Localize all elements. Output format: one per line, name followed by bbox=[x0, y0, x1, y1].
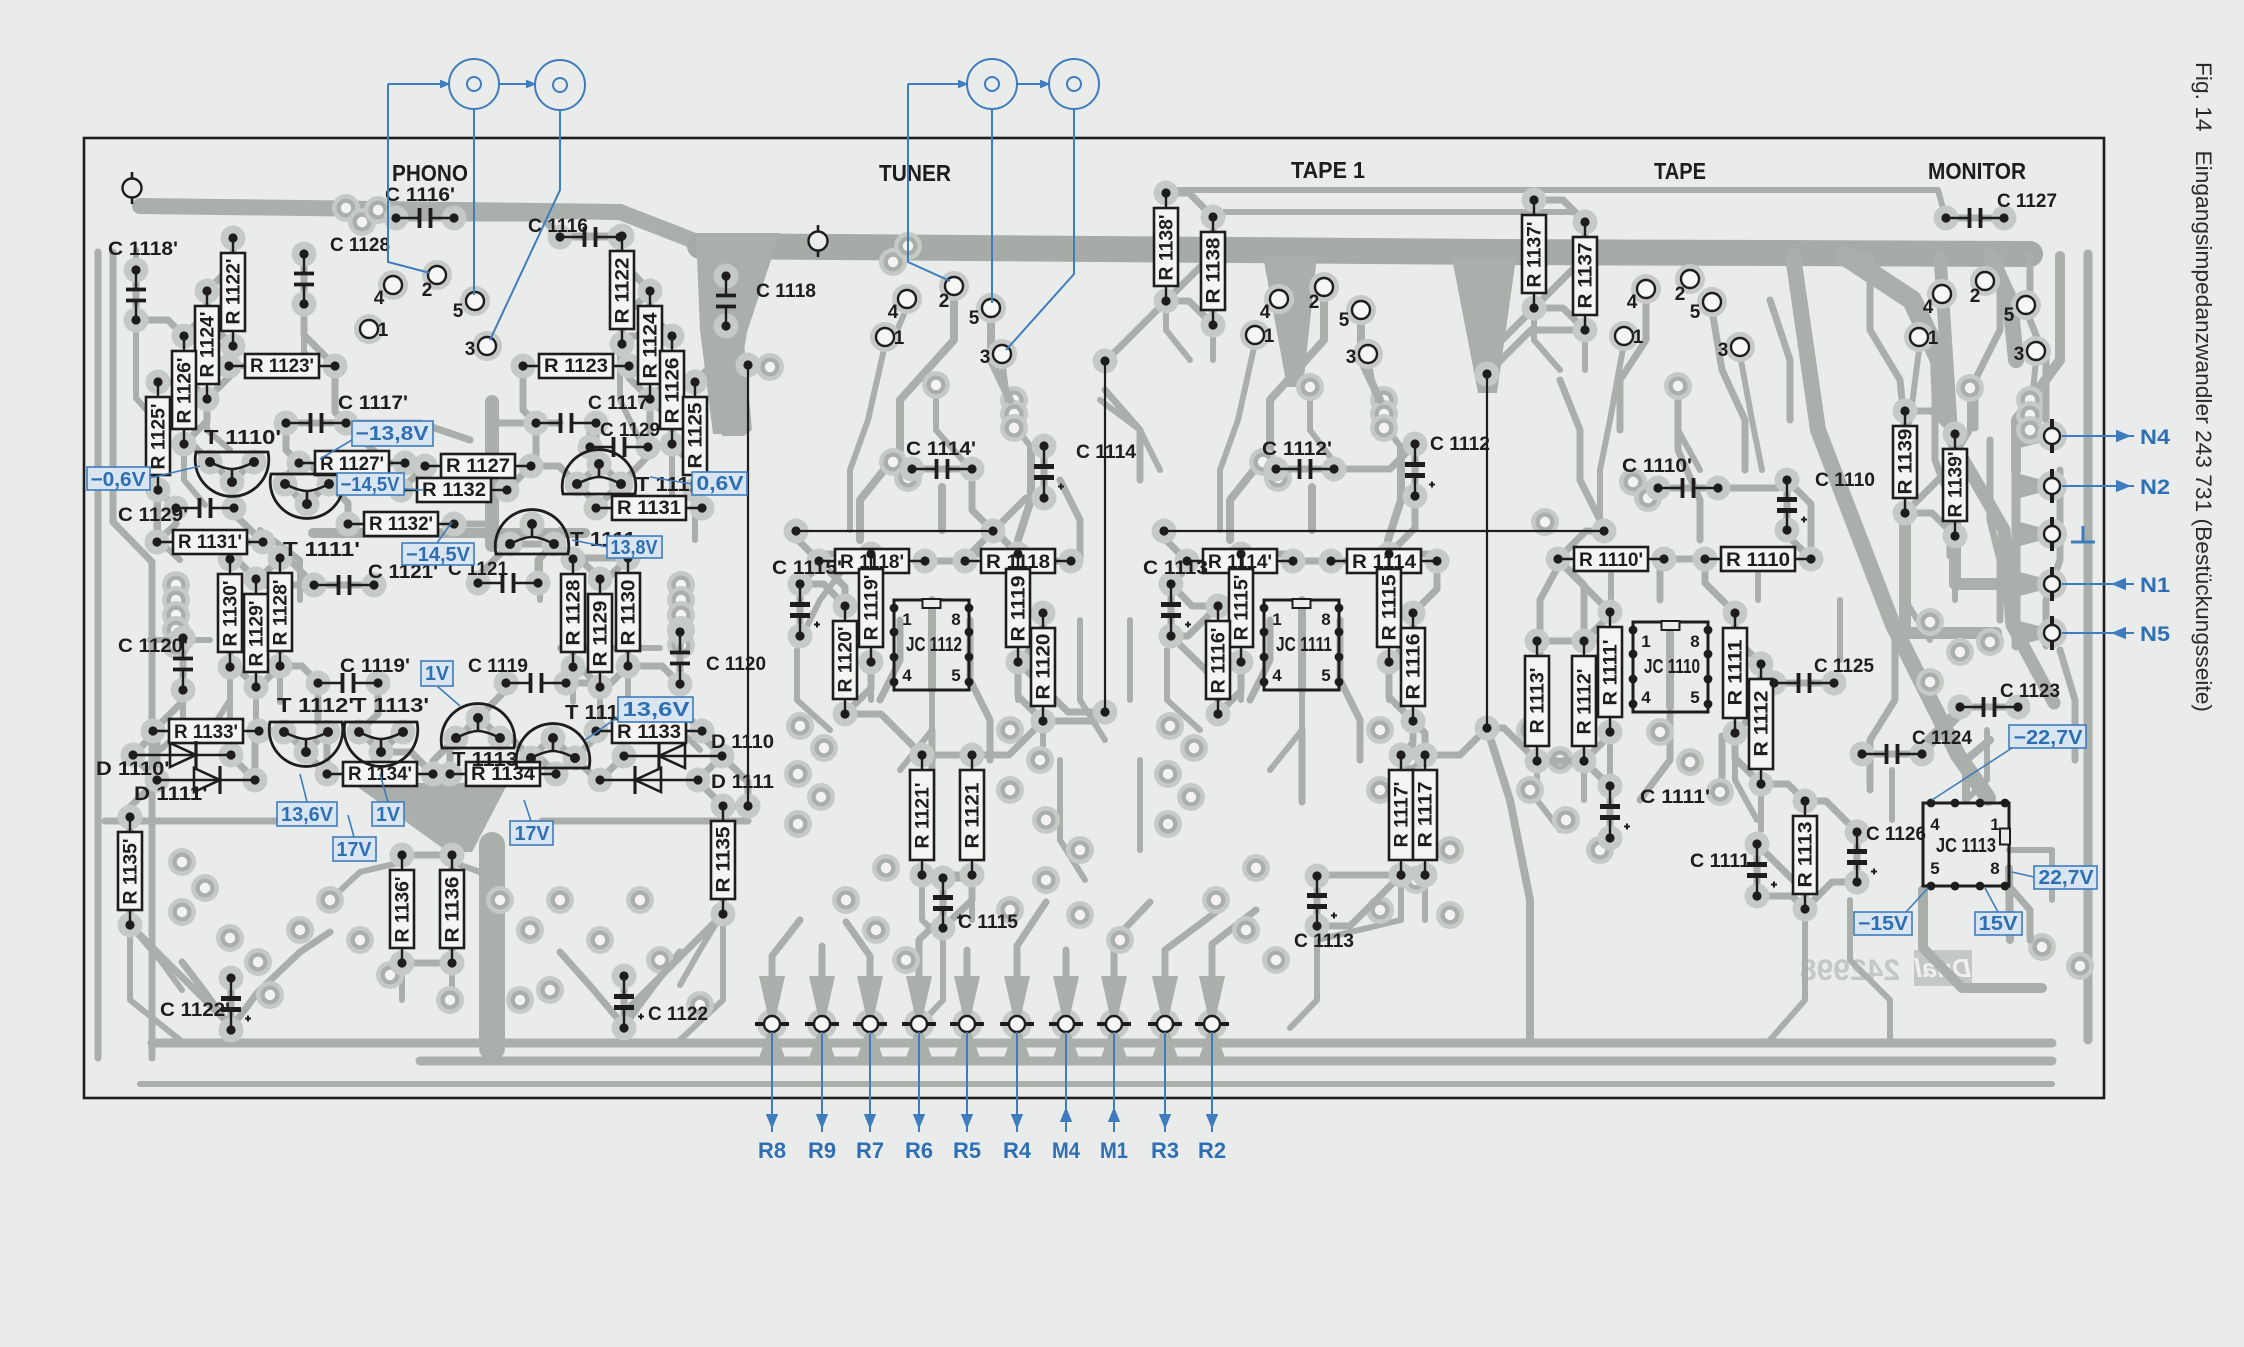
voltage label 1V bbox=[421, 661, 453, 686]
board outline frame bbox=[84, 138, 2104, 1098]
svg-text:17V: 17V bbox=[515, 823, 551, 845]
svg-text:R 1113': R 1113' bbox=[1528, 668, 1549, 734]
resistor R 1114 bbox=[1326, 549, 1441, 573]
op-amp JC 1110 bbox=[1629, 621, 1713, 712]
svg-text:5: 5 bbox=[2004, 305, 2015, 326]
svg-text:R 1139: R 1139 bbox=[1896, 429, 1917, 495]
capacitor C 1117' bbox=[281, 393, 408, 433]
resistor R 1112 bbox=[1749, 659, 1773, 788]
transistor T 1113' bbox=[344, 695, 429, 766]
svg-text:R2: R2 bbox=[1198, 1138, 1226, 1163]
svg-text:C 1118': C 1118' bbox=[108, 239, 178, 260]
svg-text:5: 5 bbox=[1321, 666, 1330, 685]
diode D 1111 bbox=[595, 766, 774, 794]
ground symbol bbox=[2071, 541, 2095, 544]
svg-text:1: 1 bbox=[1641, 632, 1650, 651]
svg-text:JC 1113: JC 1113 bbox=[1936, 835, 1996, 857]
voltage label 1V bbox=[372, 802, 404, 826]
svg-text:R 1117: R 1117 bbox=[1416, 782, 1437, 848]
capacitor C 1129' bbox=[118, 498, 239, 526]
resistor R 1110 bbox=[1700, 547, 1815, 571]
svg-text:T 1112': T 1112' bbox=[277, 695, 354, 717]
svg-text:T 1111': T 1111' bbox=[283, 539, 360, 561]
voltage label −13,8V bbox=[352, 421, 433, 446]
svg-text:TAPE 1: TAPE 1 bbox=[1291, 157, 1365, 183]
svg-text:R 1123: R 1123 bbox=[544, 356, 608, 377]
svg-text:T 1110': T 1110' bbox=[204, 427, 281, 449]
svg-text:3: 3 bbox=[465, 339, 476, 360]
terminal label M4 bbox=[1065, 1032, 1067, 1132]
resistor R 1120 bbox=[1031, 608, 1055, 725]
svg-text:C 1111': C 1111' bbox=[1640, 787, 1710, 808]
svg-text:R 1121: R 1121 bbox=[963, 782, 984, 848]
svg-text:C 1115': C 1115' bbox=[772, 558, 842, 579]
voltage label 15V bbox=[1975, 912, 2022, 935]
svg-text:5: 5 bbox=[969, 308, 980, 329]
svg-text:R 1111': R 1111' bbox=[1601, 640, 1622, 706]
capacitor C 1112' bbox=[1262, 439, 1339, 479]
svg-text:R 1131: R 1131 bbox=[617, 498, 681, 519]
svg-text:8: 8 bbox=[1990, 859, 1999, 878]
svg-text:4: 4 bbox=[1923, 297, 1934, 318]
svg-text:R 1123': R 1123' bbox=[250, 356, 314, 377]
resistor R 1124' bbox=[195, 286, 219, 403]
svg-text:D 1111: D 1111 bbox=[711, 772, 774, 793]
svg-text:C 1118: C 1118 bbox=[756, 281, 816, 302]
svg-text:R 1138': R 1138' bbox=[1157, 215, 1178, 281]
svg-text:2: 2 bbox=[1675, 284, 1686, 305]
svg-text:C 1119: C 1119 bbox=[468, 656, 528, 677]
capacitor C 1123 bbox=[1955, 681, 2060, 717]
svg-text:C 1124: C 1124 bbox=[1912, 728, 1972, 749]
transistor T 1110' bbox=[195, 427, 281, 496]
svg-text:R 1115': R 1115' bbox=[1232, 575, 1253, 641]
svg-text:R 1116': R 1116' bbox=[1209, 628, 1230, 694]
capacitor C 1111' bbox=[1600, 781, 1710, 842]
voltage label −0,6V bbox=[87, 467, 150, 491]
svg-text:2: 2 bbox=[939, 291, 950, 312]
capacitor C 1124 bbox=[1857, 728, 1972, 764]
resistor R 1113' bbox=[1525, 636, 1549, 765]
svg-text:C 1120': C 1120' bbox=[118, 636, 188, 657]
resistor R 1130 bbox=[616, 553, 640, 670]
svg-text:C 1122: C 1122 bbox=[648, 1004, 708, 1025]
resistor R 1125 bbox=[683, 377, 707, 494]
voltage label 0,6V bbox=[692, 472, 747, 495]
terminal label R3 bbox=[1164, 1032, 1166, 1132]
resistor R 1126' bbox=[172, 331, 196, 448]
svg-text:N5: N5 bbox=[2140, 623, 2170, 646]
resistor R 1118' bbox=[814, 549, 929, 573]
svg-text:R 1120': R 1120' bbox=[836, 627, 857, 693]
mounting hole top-left bbox=[123, 172, 142, 204]
svg-text:C 1122': C 1122' bbox=[160, 1000, 230, 1021]
jack wiring TUNER bbox=[908, 83, 967, 85]
voltage label 13,6V bbox=[618, 697, 693, 722]
transistor T 1111 bbox=[495, 510, 636, 554]
svg-text:N2: N2 bbox=[2140, 476, 2170, 499]
svg-text:R 1129': R 1129' bbox=[247, 601, 268, 667]
node group TUNER pads 1-5 bbox=[876, 277, 1011, 368]
svg-text:C 1126: C 1126 bbox=[1866, 824, 1926, 845]
svg-text:C 1113: C 1113 bbox=[1294, 931, 1354, 952]
svg-text:4: 4 bbox=[1641, 688, 1651, 707]
resistor R 1137 bbox=[1573, 217, 1597, 334]
capacitor C 1129 bbox=[585, 420, 660, 457]
svg-text:−14,5V: −14,5V bbox=[406, 544, 471, 566]
svg-text:13,6V: 13,6V bbox=[623, 699, 691, 721]
input jack circles PHONO bbox=[449, 59, 499, 109]
svg-text:R 1139': R 1139' bbox=[1946, 452, 1967, 518]
connector pads N (right edge) bbox=[2044, 419, 2060, 650]
net label N4 bbox=[2062, 435, 2134, 437]
capacitor C 1115 bbox=[933, 873, 1018, 933]
svg-text:Fig. 14 Eingangsimpedanzwand: Fig. 14 Eingangsimpedanzwandler 243 731 … bbox=[2191, 62, 2216, 712]
svg-text:1: 1 bbox=[894, 328, 905, 349]
svg-text:C 1115: C 1115 bbox=[958, 912, 1018, 933]
svg-text:R 1126: R 1126 bbox=[663, 358, 684, 424]
svg-text:R 1110': R 1110' bbox=[1579, 550, 1643, 571]
svg-text:R 1137': R 1137' bbox=[1525, 222, 1546, 288]
capacitor C 1113' bbox=[1143, 558, 1213, 641]
svg-text:T 1113': T 1113' bbox=[352, 695, 429, 717]
svg-text:−22,7V: −22,7V bbox=[2014, 727, 2084, 749]
resistor R 1127 bbox=[420, 454, 535, 478]
voltage label 17V bbox=[510, 821, 553, 845]
voltage label 13,8V bbox=[607, 536, 662, 559]
svg-text:PHONO: PHONO bbox=[392, 160, 468, 186]
svg-text:−0,6V: −0,6V bbox=[91, 469, 147, 491]
svg-text:R4: R4 bbox=[1003, 1138, 1032, 1163]
diode D 1111' bbox=[134, 766, 260, 805]
resistor R 1138' bbox=[1154, 188, 1178, 305]
capacitor C 1120' bbox=[118, 633, 193, 694]
svg-text:R 1130': R 1130' bbox=[221, 581, 242, 647]
wire TAPE1 link bbox=[1159, 526, 1608, 535]
svg-text:R 1135: R 1135 bbox=[714, 826, 735, 892]
svg-text:C 1112: C 1112 bbox=[1430, 434, 1490, 455]
capacitor C 1122 bbox=[614, 971, 708, 1032]
resistor R 1123 bbox=[518, 354, 633, 378]
resistor R 1136' bbox=[390, 850, 414, 967]
voltage label −14,5V bbox=[337, 473, 404, 496]
svg-text:R 1128: R 1128 bbox=[564, 580, 585, 646]
svg-text:15V: 15V bbox=[1979, 913, 2019, 935]
resistor R 1124 bbox=[638, 286, 662, 403]
svg-text:1: 1 bbox=[1928, 328, 1939, 349]
copper trace network bbox=[98, 190, 2094, 1084]
resistor R 1115 bbox=[1377, 549, 1401, 666]
resistor R 1128 bbox=[561, 554, 585, 671]
resistor R 1127' bbox=[294, 451, 409, 475]
svg-text:JC 1110: JC 1110 bbox=[1644, 656, 1700, 678]
svg-text:R 1137: R 1137 bbox=[1576, 243, 1597, 309]
svg-text:T 1113: T 1113 bbox=[452, 749, 518, 771]
svg-text:R 1122': R 1122' bbox=[224, 259, 245, 325]
node group MONITOR pads 1-5 bbox=[1910, 272, 2045, 365]
svg-text:8: 8 bbox=[951, 610, 960, 629]
svg-text:4: 4 bbox=[1272, 666, 1282, 685]
node group PHONO pads 1-5 bbox=[360, 266, 496, 360]
svg-text:3: 3 bbox=[980, 347, 991, 368]
lead pad halos bbox=[118, 181, 2031, 1043]
capacitor C 1128 bbox=[294, 235, 390, 309]
diode D 1110 bbox=[619, 732, 774, 770]
resistor R 1114' bbox=[1182, 549, 1297, 573]
svg-text:M4: M4 bbox=[1052, 1138, 1081, 1163]
svg-text:5: 5 bbox=[1690, 302, 1701, 323]
capacitor C 1115' bbox=[772, 558, 842, 641]
capacitor C 1121 bbox=[448, 559, 543, 593]
voltage label −22,7V bbox=[2009, 725, 2086, 749]
resistor R 1126 bbox=[660, 331, 684, 448]
svg-text:R 1126': R 1126' bbox=[175, 358, 196, 424]
svg-text:D 1110: D 1110 bbox=[711, 732, 774, 753]
svg-text:R 1136': R 1136' bbox=[393, 877, 414, 943]
capacitor C 1118' bbox=[108, 239, 178, 325]
resistor R 1121' bbox=[910, 750, 934, 879]
terminal label R7 bbox=[869, 1032, 871, 1132]
svg-text:3: 3 bbox=[2014, 344, 2025, 365]
svg-text:R 1130: R 1130 bbox=[619, 580, 640, 646]
resistor R 1130' bbox=[218, 554, 242, 671]
capacitor C 1112 bbox=[1405, 434, 1490, 501]
svg-text:C 1120: C 1120 bbox=[706, 654, 766, 675]
resistor R 1139' bbox=[1943, 429, 1967, 540]
resistor R 1136 bbox=[440, 850, 464, 967]
svg-text:8: 8 bbox=[1321, 610, 1330, 629]
transistor T 1110 bbox=[562, 450, 702, 496]
mounting hole top-middle bbox=[809, 225, 828, 257]
svg-text:R 1136: R 1136 bbox=[443, 877, 464, 943]
capacitor C 1114' bbox=[906, 439, 977, 479]
svg-text:N4: N4 bbox=[2140, 426, 2170, 449]
svg-text:R 1125: R 1125 bbox=[686, 402, 707, 468]
wire TAPE vertical bbox=[1482, 369, 1491, 732]
capacitor C 1119' bbox=[313, 656, 410, 693]
resistor R 1115' bbox=[1229, 549, 1253, 666]
capacitor C 1111 bbox=[1690, 839, 1777, 900]
capacitor C 1126 bbox=[1847, 824, 1926, 887]
svg-text:C 1116: C 1116 bbox=[528, 216, 588, 237]
svg-text:R9: R9 bbox=[808, 1138, 836, 1163]
resistor R 1117' bbox=[1389, 750, 1413, 879]
svg-text:R8: R8 bbox=[758, 1138, 786, 1163]
svg-text:R6: R6 bbox=[905, 1138, 933, 1163]
capacitor C 1120 bbox=[670, 627, 766, 688]
svg-text:TUNER: TUNER bbox=[879, 160, 951, 186]
voltage label 13,6V bbox=[277, 802, 337, 826]
op-amp JC 1113 bbox=[1923, 799, 2010, 891]
terminal label M1 bbox=[1113, 1032, 1115, 1132]
wire PHONO vertical bbox=[743, 360, 752, 810]
resistor R 1137' bbox=[1522, 195, 1546, 312]
svg-text:4: 4 bbox=[374, 288, 385, 309]
terminal label R9 bbox=[821, 1032, 823, 1132]
svg-text:N1: N1 bbox=[2140, 574, 2170, 597]
resistor R 1135' bbox=[118, 812, 142, 929]
svg-text:2: 2 bbox=[1970, 286, 1981, 307]
transistor T 1112 bbox=[516, 702, 631, 768]
svg-text:R 1131': R 1131' bbox=[178, 532, 242, 553]
capacitor C 1119 bbox=[468, 656, 571, 693]
svg-text:MONITOR: MONITOR bbox=[1928, 158, 2026, 184]
svg-text:17V: 17V bbox=[337, 839, 373, 861]
capacitor C 1114 bbox=[1034, 441, 1136, 502]
resistor R 1118 bbox=[960, 549, 1075, 573]
capacitor C 1127 bbox=[1941, 191, 2057, 228]
terminal label R2 bbox=[1211, 1032, 1213, 1132]
resistor R 1122' bbox=[221, 233, 245, 350]
resistor R 1110' bbox=[1553, 547, 1668, 571]
op-amp JC 1112 bbox=[890, 599, 974, 690]
svg-text:1: 1 bbox=[902, 610, 911, 629]
svg-text:M1: M1 bbox=[1100, 1138, 1128, 1163]
resistor R 1116 bbox=[1401, 608, 1425, 725]
voltage label 22,7V bbox=[2034, 866, 2097, 889]
resistor R 1131 bbox=[591, 496, 706, 520]
svg-text:R7: R7 bbox=[856, 1138, 884, 1163]
capacitor C 1113 bbox=[1294, 871, 1354, 952]
transistor T 1112' bbox=[269, 695, 354, 766]
svg-text:4: 4 bbox=[902, 666, 912, 685]
svg-text:JC 1111: JC 1111 bbox=[1276, 634, 1332, 656]
wire TUNER vertical bbox=[1100, 356, 1109, 716]
svg-text:C 1110: C 1110 bbox=[1815, 470, 1875, 491]
resistor R 1119' bbox=[859, 549, 883, 666]
jack wiring PHONO bbox=[388, 83, 449, 85]
capacitor C 1122' bbox=[160, 973, 251, 1034]
svg-text:R 1110: R 1110 bbox=[1726, 550, 1790, 571]
svg-text:2: 2 bbox=[422, 280, 433, 301]
svg-text:R 1111: R 1111 bbox=[1726, 639, 1747, 705]
svg-text:R 1132': R 1132' bbox=[369, 514, 433, 535]
svg-text:1: 1 bbox=[1272, 610, 1281, 629]
voltage label −15V bbox=[1854, 912, 1912, 935]
svg-text:22,7V: 22,7V bbox=[2039, 867, 2095, 889]
svg-text:C 1114': C 1114' bbox=[906, 439, 976, 460]
svg-text:0,6V: 0,6V bbox=[697, 473, 745, 495]
svg-text:R 1132: R 1132 bbox=[422, 480, 486, 501]
svg-text:C 1110': C 1110' bbox=[1622, 456, 1692, 477]
resistor R 1111' bbox=[1598, 607, 1622, 736]
svg-text:R 1129: R 1129 bbox=[591, 601, 612, 667]
resistor R 1132' bbox=[343, 512, 458, 536]
svg-text:5: 5 bbox=[951, 666, 960, 685]
capacitor C 1110 bbox=[1777, 470, 1875, 535]
svg-text:C 1117': C 1117' bbox=[338, 393, 408, 414]
svg-text:R 1121': R 1121' bbox=[913, 783, 934, 849]
svg-text:5: 5 bbox=[1690, 688, 1699, 707]
resistor R 1138 bbox=[1201, 212, 1225, 329]
svg-text:R 1124': R 1124' bbox=[198, 312, 219, 378]
svg-text:3: 3 bbox=[1346, 347, 1357, 368]
svg-text:4: 4 bbox=[1930, 815, 1940, 834]
svg-text:C 1119': C 1119' bbox=[340, 656, 410, 677]
svg-text:3: 3 bbox=[1718, 340, 1729, 361]
svg-text:13,8V: 13,8V bbox=[611, 537, 659, 559]
svg-text:R 1135': R 1135' bbox=[121, 839, 142, 905]
voltage label −14,5V bbox=[402, 543, 474, 566]
transistor T 1113 bbox=[441, 704, 518, 771]
svg-text:4: 4 bbox=[888, 302, 899, 323]
svg-text:R 1127: R 1127 bbox=[446, 456, 510, 477]
svg-text:R 1115: R 1115 bbox=[1380, 574, 1401, 640]
svg-text:13,6V: 13,6V bbox=[281, 804, 334, 826]
resistor R 1139 bbox=[1893, 406, 1917, 517]
svg-text:TAPE: TAPE bbox=[1654, 158, 1706, 184]
transistor T 1111' bbox=[270, 474, 360, 561]
resistor R 1116' bbox=[1206, 601, 1230, 718]
terminal label R6 bbox=[918, 1032, 920, 1132]
resistor R 1133' bbox=[148, 719, 263, 743]
svg-text:1V: 1V bbox=[376, 804, 401, 826]
capacitor C 1125 bbox=[1769, 656, 1874, 693]
svg-text:C 1128: C 1128 bbox=[330, 235, 390, 256]
svg-text:C 1113': C 1113' bbox=[1143, 558, 1213, 579]
resistor R 1131' bbox=[152, 530, 267, 554]
svg-text:R 1128': R 1128' bbox=[271, 580, 292, 646]
svg-text:C 1117: C 1117 bbox=[588, 393, 648, 414]
svg-text:5: 5 bbox=[1930, 859, 1939, 878]
svg-text:−15V: −15V bbox=[1858, 913, 1909, 935]
svg-text:R 1133: R 1133 bbox=[617, 722, 681, 743]
terminal label R5 bbox=[966, 1032, 968, 1132]
bottom connector pads row bbox=[755, 1016, 1229, 1032]
svg-text:R 1117': R 1117' bbox=[1392, 782, 1413, 848]
resistor R 1134' bbox=[322, 762, 437, 786]
svg-text:C 1129: C 1129 bbox=[600, 420, 660, 441]
svg-text:1V: 1V bbox=[425, 663, 450, 685]
svg-text:R 1119': R 1119' bbox=[862, 575, 883, 641]
svg-text:R 1119: R 1119 bbox=[1009, 576, 1030, 642]
svg-text:R 1112': R 1112' bbox=[1575, 669, 1596, 735]
svg-text:R 1120: R 1120 bbox=[1034, 634, 1055, 700]
svg-text:1: 1 bbox=[1990, 815, 1999, 834]
resistor R 1125' bbox=[146, 377, 170, 494]
resistor R 1129 bbox=[588, 574, 612, 691]
resistor R 1119 bbox=[1006, 549, 1030, 666]
svg-text:C 1112': C 1112' bbox=[1262, 439, 1332, 460]
net label N2 bbox=[2062, 485, 2134, 487]
op-amp JC 1111 bbox=[1260, 599, 1344, 690]
wire TUNER link bbox=[791, 526, 997, 535]
capacitor C 1117 bbox=[531, 393, 648, 433]
resistor R 1111 bbox=[1723, 608, 1747, 737]
svg-text:R 1124: R 1124 bbox=[641, 312, 662, 378]
resistor R 1123' bbox=[224, 354, 339, 378]
net label N1 bbox=[2062, 583, 2134, 585]
svg-text:C 1114: C 1114 bbox=[1076, 442, 1136, 463]
resistor R 1134 bbox=[445, 762, 560, 786]
svg-text:−14,5V: −14,5V bbox=[341, 474, 401, 496]
resistor R 1120' bbox=[833, 601, 857, 718]
svg-text:R 1116: R 1116 bbox=[1404, 634, 1425, 700]
resistor R 1121 bbox=[960, 750, 984, 879]
resistor R 1135 bbox=[711, 801, 735, 918]
resistor R 1117 bbox=[1413, 750, 1437, 879]
svg-text:2: 2 bbox=[1309, 292, 1320, 313]
capacitor C 1116 bbox=[528, 216, 625, 247]
capacitor C 1118 bbox=[716, 271, 816, 330]
svg-text:R 1138: R 1138 bbox=[1204, 238, 1225, 304]
resistor R 1129' bbox=[244, 574, 268, 691]
svg-text:R 1125': R 1125' bbox=[149, 404, 170, 470]
svg-text:−13,8V: −13,8V bbox=[356, 423, 430, 445]
net label N5 bbox=[2062, 632, 2134, 634]
svg-text:C 1127: C 1127 bbox=[1997, 191, 2057, 212]
svg-text:R 1113: R 1113 bbox=[1796, 822, 1817, 888]
